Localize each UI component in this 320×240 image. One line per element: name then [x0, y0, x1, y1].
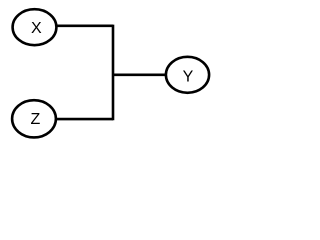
- svg-text:X: X: [31, 20, 42, 37]
- svg-text:Z: Z: [31, 111, 41, 128]
- node Y: [166, 57, 209, 93]
- node X: [13, 9, 57, 45]
- wire junction to Y: [113, 74, 167, 77]
- svg-text:Y: Y: [183, 68, 194, 85]
- wire vertical trunk: [112, 25, 115, 121]
- node Z: [12, 100, 56, 137]
- wire X to junction: [56, 24, 113, 27]
- wire Z to junction: [56, 118, 113, 121]
